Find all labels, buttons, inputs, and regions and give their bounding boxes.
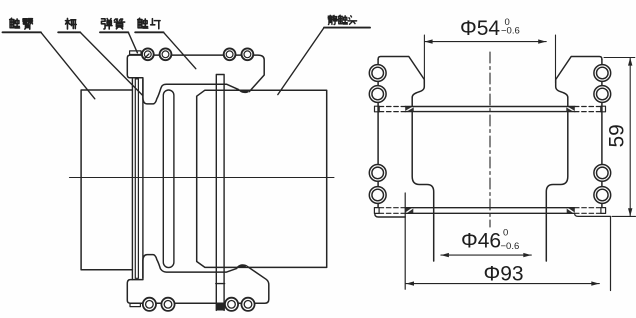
- label 触片: [138, 18, 148, 28]
- nut square upper left: [375, 106, 380, 112]
- bolt ring 6: [161, 298, 174, 311]
- dim 59 extension lines: [604, 58, 636, 217]
- contact blob bottom (pressure point, filled): [237, 264, 248, 267]
- hidden dashed lines upper left: [379, 107, 405, 112]
- top bracket outline: [127, 55, 264, 104]
- svg-text:0: 0: [503, 228, 508, 239]
- dim Φ46 line: [441, 254, 531, 256]
- hidden dashed lines lower left: [379, 208, 405, 214]
- contact arm (moving arm rectangle, left): [81, 90, 132, 270]
- outer wall left: [377, 59, 379, 207]
- svg-text:−0.6: −0.6: [501, 26, 520, 37]
- bottom bracket outline: [127, 255, 268, 304]
- bolt rings left column: [369, 65, 386, 82]
- arrowheads Φ93: [406, 281, 414, 285]
- lower skirt left: [375, 214, 405, 217]
- bolt ring 5: [143, 298, 156, 311]
- leader 触片: [135, 31, 163, 33]
- section outline left half: [378, 57, 424, 98]
- spring tab: [130, 51, 141, 55]
- svg-text:59: 59: [606, 124, 629, 147]
- bolt ring 8: [241, 298, 254, 311]
- inner wall middle + S-curve + lower bore wall left: [412, 97, 434, 261]
- strip foot (filled block): [216, 303, 225, 311]
- label 栅: [65, 18, 76, 29]
- grid plate (thin vertical plate pair with end caps): [135, 79, 138, 278]
- leader 栅: [58, 31, 80, 33]
- bolt ring 7: [225, 298, 238, 311]
- contact plate lower (solid lines across): [405, 208, 574, 214]
- hatch mark lower left: [405, 208, 413, 214]
- spring tab bottom: [130, 303, 140, 306]
- contact plate upper (solid lines across): [405, 107, 575, 112]
- vertical dashed centerline: [489, 52, 491, 227]
- leader 触臂: [3, 31, 41, 33]
- arrowheads 59: [628, 58, 632, 66]
- bolt ring 4: [242, 48, 254, 60]
- svg-text:Φ93: Φ93: [484, 262, 524, 285]
- lower outer wall left (also extension line of dim 93): [404, 193, 406, 289]
- leader 静触头: [324, 27, 370, 29]
- tulip left edge vertical: [142, 80, 144, 278]
- arrowheads Φ54: [425, 39, 433, 43]
- top contact bracket: [127, 48, 264, 104]
- retaining strip (vertical band with caps): [216, 75, 225, 311]
- lower skirt right (with extension line of dim 93): [575, 213, 611, 290]
- arrowheads Φ46: [441, 253, 449, 257]
- dim Φ93 line: [406, 283, 599, 285]
- bolt ring 2: [160, 48, 172, 60]
- svg-text:Φ46: Φ46: [461, 230, 501, 253]
- svg-text:Φ54: Φ54: [460, 17, 500, 40]
- dim 59 line: [629, 58, 631, 217]
- bolt ring 1: [142, 48, 154, 60]
- label 触臂: [10, 18, 20, 28]
- bolt ring 3: [224, 48, 236, 60]
- outer plate vertical (arm right edge): [131, 78, 133, 280]
- bottom contact bracket: [127, 255, 268, 311]
- right half of section (mirror): [546, 57, 610, 262]
- dim Φ54 line: [425, 41, 547, 43]
- hatch mark upper left: [405, 107, 414, 112]
- svg-text:−0.6: −0.6: [501, 241, 520, 252]
- label 弹簧: [101, 19, 112, 29]
- leader 弹簧: [100, 31, 128, 33]
- center line (horizontal axis of left view): [69, 177, 334, 179]
- label 静触头: [328, 15, 337, 24]
- contact blob top (pressure point, filled): [239, 90, 250, 93]
- dim Φ54 extension lines: [424, 35, 555, 83]
- finger slot (long slot with rounded ends): [163, 90, 174, 268]
- static contact rod (right rectangle with chamfered tip): [197, 90, 327, 267]
- nut square lower left: [374, 208, 379, 214]
